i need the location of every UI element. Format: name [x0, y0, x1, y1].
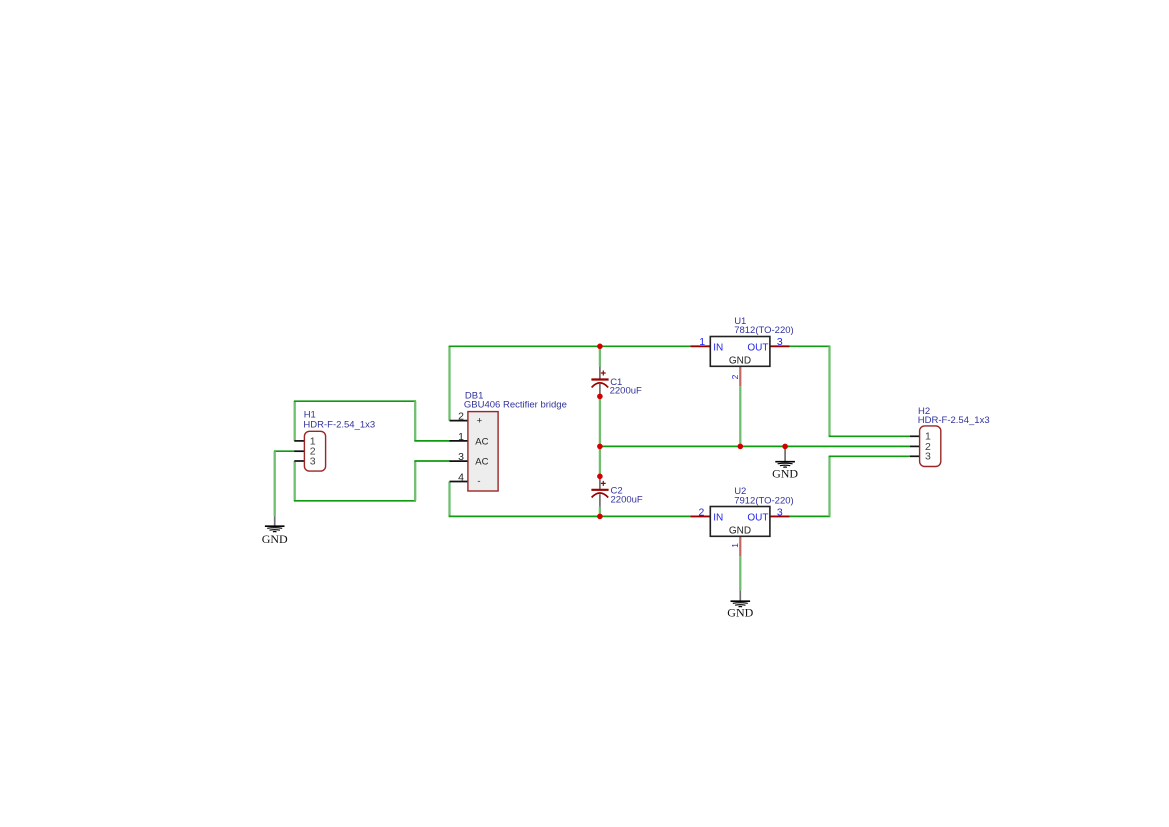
- wire rise to DB1 pin3: [414, 461, 416, 501]
- wire top rail DB1 to U1 IN: [449, 345, 691, 347]
- svg-text:GND: GND: [772, 466, 798, 480]
- svg-text:OUT: OUT: [747, 512, 768, 523]
- H2 body: [920, 426, 941, 467]
- svg-text:1: 1: [730, 543, 740, 548]
- svg-text:2: 2: [730, 374, 740, 379]
- ground bar 4: [273, 531, 277, 533]
- svg-text:3: 3: [310, 456, 316, 468]
- wire U2 OUT run: [790, 515, 831, 517]
- wire drop to H2 pin1: [828, 346, 830, 436]
- wire into DB1 pin3: [414, 460, 450, 462]
- connector H1: [294, 410, 375, 471]
- svg-text:3: 3: [777, 336, 783, 348]
- junction top rail / C1: [597, 344, 603, 350]
- DB1 pin 2 stub: [450, 420, 468, 422]
- ground bar 2: [778, 462, 793, 465]
- C2 top plate: [591, 489, 608, 491]
- wire bottom rail DB1 to U2 IN: [449, 515, 691, 517]
- svg-text:2: 2: [699, 506, 705, 518]
- ground bar 3: [735, 604, 745, 607]
- ground under H1: [262, 516, 288, 546]
- svg-text:AC: AC: [475, 436, 488, 447]
- svg-text:3: 3: [777, 506, 783, 518]
- H1 pin 3 stub: [294, 460, 304, 462]
- ground bar 4: [783, 466, 787, 468]
- C1 top lead: [599, 367, 601, 379]
- ground pin stem: [784, 446, 786, 461]
- svg-text:7812(TO-220): 7812(TO-220): [734, 325, 794, 336]
- U1 pin 1 stub: [690, 345, 710, 347]
- U1 body: [710, 337, 770, 367]
- ground under U2: [727, 590, 753, 619]
- ground bar 1: [731, 600, 751, 602]
- ground bar 2: [733, 602, 748, 605]
- ground on mid rail: [772, 446, 798, 480]
- regulator U2: [690, 486, 793, 556]
- wire U1 OUT run: [790, 345, 831, 347]
- svg-text:7912(TO-220): 7912(TO-220): [734, 495, 794, 506]
- svg-text:IN: IN: [713, 342, 723, 353]
- wire H1 pin2 left run: [274, 450, 295, 452]
- junction C1 bottom: [597, 394, 603, 400]
- C2 bottom lead: [599, 494, 601, 507]
- svg-text:2200uF: 2200uF: [610, 386, 642, 397]
- ground bar 3: [780, 464, 790, 467]
- svg-text:HDR-F-2.54_1x3: HDR-F-2.54_1x3: [303, 420, 375, 431]
- wire C2 bottom connector: [599, 507, 601, 517]
- ground bar 1: [775, 461, 795, 463]
- wire into H2 pin1: [829, 435, 910, 437]
- H2 pin 1 stub: [910, 435, 920, 437]
- junction mid rail / caps: [597, 444, 603, 450]
- wire H1 pin3 bottom run: [294, 500, 416, 502]
- connector H2: [910, 406, 990, 467]
- svg-text:4: 4: [458, 472, 464, 484]
- wire rise to H2 pin3: [828, 456, 830, 516]
- ground bar 4: [739, 606, 743, 608]
- ground pin stem: [274, 516, 276, 526]
- C1 bottom lead: [599, 384, 601, 396]
- DB1 pin 1 stub: [450, 440, 468, 442]
- H1 pin 2 stub: [294, 450, 304, 452]
- regulator U1: [690, 316, 793, 386]
- wire H1 pin1 riser: [294, 401, 296, 441]
- svg-text:AC: AC: [475, 457, 488, 468]
- svg-text:+: +: [477, 416, 483, 427]
- C1 top plate: [591, 378, 608, 380]
- H1 body: [304, 431, 325, 471]
- svg-text:GND: GND: [262, 532, 288, 546]
- ground bar 1: [265, 525, 285, 527]
- svg-text:GND: GND: [729, 356, 751, 367]
- C2 plus sign: [601, 481, 606, 486]
- svg-text:HDR-F-2.54_1x3: HDR-F-2.54_1x3: [918, 415, 990, 426]
- C1 bottom plate arc: [592, 383, 609, 388]
- ground bar 3: [270, 529, 280, 532]
- wire drop to DB1 pin1: [414, 401, 416, 441]
- wire mid rail: [600, 445, 910, 447]
- svg-text:GND: GND: [727, 606, 753, 620]
- ground bar 2: [267, 527, 282, 530]
- wire DB1 pin4 dropper: [448, 482, 450, 517]
- junction C2 top: [597, 474, 603, 480]
- svg-text:1: 1: [458, 431, 464, 443]
- wire H1 pin1 top run: [294, 400, 416, 402]
- C2 bottom plate arc: [592, 493, 609, 498]
- DB1 pin 3 stub: [450, 460, 468, 462]
- junction bottom rail / C2: [597, 514, 603, 520]
- svg-text:GND: GND: [729, 526, 751, 537]
- capacitor C1: [591, 367, 642, 397]
- wire into DB1 pin1: [414, 440, 450, 442]
- svg-text:-: -: [477, 476, 480, 487]
- svg-text:1: 1: [699, 336, 705, 348]
- U2 body: [710, 507, 770, 537]
- wire into H2 pin3: [829, 455, 910, 457]
- svg-text:GBU406 Rectifier bridge: GBU406 Rectifier bridge: [464, 400, 567, 411]
- junction mid rail / ground tap: [782, 444, 788, 450]
- wire U1 GND to mid rail: [739, 386, 741, 446]
- wire H1 pin3 drop: [294, 461, 296, 501]
- U2 pin 1 stub: [739, 536, 741, 556]
- svg-text:2: 2: [458, 411, 464, 423]
- ground pin stem: [739, 590, 741, 601]
- wire DB1 pin2 riser: [448, 346, 450, 420]
- svg-text:3: 3: [458, 451, 464, 463]
- svg-text:3: 3: [925, 451, 931, 463]
- wire C1 bottom connector: [599, 396, 601, 446]
- wire U2 GND down: [739, 556, 741, 590]
- svg-text:2200uF: 2200uF: [611, 494, 643, 505]
- H2 pin 2 stub: [910, 445, 920, 447]
- svg-text:IN: IN: [713, 512, 723, 523]
- H1 pin 1 stub: [294, 440, 304, 442]
- svg-text:OUT: OUT: [747, 342, 768, 353]
- U1 pin 2 stub: [739, 366, 741, 386]
- C1 plus sign: [601, 371, 606, 376]
- U2 pin 2 stub: [690, 515, 710, 517]
- capacitor C2: [591, 476, 643, 507]
- U1 pin 3 stub: [770, 345, 790, 347]
- U2 pin 3 stub: [770, 515, 790, 517]
- bridge rectifier DB1: [450, 390, 567, 491]
- DB1 body: [468, 412, 498, 491]
- wire H1 pin2 drop to GND: [274, 451, 276, 516]
- H2 pin 3 stub: [910, 455, 920, 457]
- C2 top lead: [599, 476, 601, 489]
- wire C2 top connector: [599, 446, 601, 476]
- DB1 pin 4 stub: [450, 481, 468, 483]
- wire C1 top connector: [599, 346, 601, 366]
- junction mid rail / U1 GND: [738, 444, 744, 450]
